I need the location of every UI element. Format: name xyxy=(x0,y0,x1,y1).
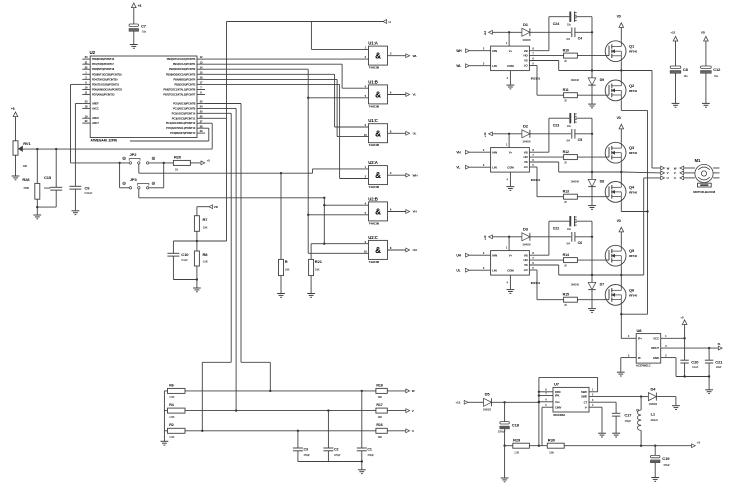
ground xyxy=(598,433,606,437)
wire xyxy=(388,132,406,134)
svg-text:6: 6 xyxy=(532,261,534,265)
svg-text:29: 29 xyxy=(200,129,203,133)
svg-text:U1:B: U1:B xyxy=(368,79,378,84)
svg-text:2: 2 xyxy=(665,353,667,357)
resistor R xyxy=(279,259,290,275)
svg-text:470uF: 470uF xyxy=(663,464,670,467)
wire PC2 to row U xyxy=(202,113,231,431)
svg-text:ATMEGA48_32PIN: ATMEGA48_32PIN xyxy=(91,139,118,143)
svg-text:VS: VS xyxy=(524,263,528,267)
svg-text:V: V xyxy=(667,171,669,175)
svg-text:SWE: SWE xyxy=(581,395,587,399)
svg-text:C19: C19 xyxy=(662,456,670,461)
svg-text:MC34063: MC34063 xyxy=(553,413,565,417)
port U out xyxy=(661,176,669,180)
wire xyxy=(388,249,406,251)
svg-text:VD: VD xyxy=(617,116,622,120)
wire phase W riser xyxy=(621,71,660,169)
wire HO xyxy=(529,156,563,158)
wire xyxy=(504,446,506,478)
svg-text:10K: 10K xyxy=(285,267,290,271)
svg-text:C2: C2 xyxy=(334,447,338,451)
svg-text:8: 8 xyxy=(532,251,534,255)
port VD xyxy=(209,205,219,209)
power +5 (U8) xyxy=(680,316,687,325)
svg-text:8: 8 xyxy=(532,148,534,152)
svg-text:1.2K: 1.2K xyxy=(514,451,519,454)
wire xyxy=(620,232,622,246)
port +12 (bridge D3) xyxy=(483,235,492,240)
svg-text:R: R xyxy=(285,259,288,264)
ground xyxy=(705,390,713,394)
svg-text:&: & xyxy=(375,129,381,138)
svg-text:&: & xyxy=(375,52,381,61)
port +5 out xyxy=(692,440,701,447)
svg-text:V: V xyxy=(412,409,414,413)
wire xyxy=(620,266,622,275)
wire xyxy=(298,461,362,463)
svg-text:ADC6: ADC6 xyxy=(92,116,99,120)
svg-text:VD: VD xyxy=(617,15,622,19)
svg-text:+12: +12 xyxy=(455,401,460,405)
svg-text:LO: LO xyxy=(524,268,529,272)
junction xyxy=(118,162,120,164)
svg-text:2: 2 xyxy=(483,47,485,51)
svg-text:23: 23 xyxy=(200,100,203,104)
wire to low FET gate xyxy=(577,94,609,96)
svg-text:PB4(MISO)/PCINT4: PB4(MISO)/PCINT4 xyxy=(173,77,195,81)
pin 10 PD6 xyxy=(82,86,122,92)
wire xyxy=(387,390,406,392)
svg-text:GND: GND xyxy=(653,356,659,360)
svg-text:1: 1 xyxy=(506,143,508,147)
svg-text:PD1(TXD)/PCINT17: PD1(TXD)/PCINT17 xyxy=(92,62,114,66)
wire xyxy=(149,162,174,164)
svg-text:22uF: 22uF xyxy=(716,366,722,369)
wire xyxy=(469,266,490,270)
svg-text:22u: 22u xyxy=(567,125,571,128)
svg-text:30: 30 xyxy=(85,55,88,59)
wire to U1:B pin5 xyxy=(308,97,368,99)
wire PB4 to U1:C pin10 xyxy=(205,79,369,136)
svg-text:VL: VL xyxy=(456,166,460,170)
wire PD5 to JP2 xyxy=(71,84,130,162)
svg-text:VH: VH xyxy=(413,210,417,214)
pin 11 PD7 xyxy=(82,91,115,97)
svg-text:U: U xyxy=(667,176,669,180)
wire VB loop xyxy=(529,17,569,51)
junction xyxy=(280,172,282,174)
resistor R8 xyxy=(194,241,208,280)
svg-text:+5: +5 xyxy=(11,107,15,111)
svg-text:6: 6 xyxy=(390,208,392,212)
jumper JP2 xyxy=(129,152,140,164)
wire V+ riser xyxy=(506,237,509,251)
pin 9 PD5 xyxy=(82,81,119,87)
svg-text:R28: R28 xyxy=(22,177,30,182)
svg-text:1N4005: 1N4005 xyxy=(522,39,531,42)
wire JP3 pin2 to gate bus xyxy=(139,189,324,198)
svg-text:PD4(T0/XCK)/PCINT20: PD4(T0/XCK)/PCINT20 xyxy=(92,77,118,81)
ground xyxy=(507,290,515,294)
svg-text:6: 6 xyxy=(545,399,547,402)
resistor R15 xyxy=(563,292,578,307)
ground xyxy=(617,372,625,376)
diode D7 1N4148 xyxy=(571,275,604,308)
svg-text:C18: C18 xyxy=(512,422,520,427)
wire xyxy=(120,163,130,188)
svg-text:&: & xyxy=(375,208,381,217)
svg-text:470pF: 470pF xyxy=(367,454,374,457)
wire xyxy=(469,163,490,167)
wire V+ riser xyxy=(506,134,509,148)
svg-text:&: & xyxy=(375,171,381,180)
wire xyxy=(705,73,707,103)
wire JP3 pin3 up to R20 node xyxy=(149,164,164,188)
svg-text:1: 1 xyxy=(506,246,508,250)
svg-text:24: 24 xyxy=(200,105,203,109)
and-gate U2:B 74HC08 xyxy=(365,196,392,225)
svg-text:25: 25 xyxy=(200,109,203,113)
ground xyxy=(358,470,366,474)
svg-text:1K: 1K xyxy=(175,167,178,171)
svg-text:1N4148: 1N4148 xyxy=(571,181,580,184)
pin 22 ADC7 xyxy=(82,119,99,125)
svg-text:LIN: LIN xyxy=(492,165,496,169)
resistor R10 xyxy=(563,48,578,63)
svg-text:10u: 10u xyxy=(142,29,147,33)
svg-text:220uH: 220uH xyxy=(651,419,658,422)
wire xyxy=(15,155,17,175)
svg-text:+12: +12 xyxy=(483,235,487,240)
wire CT to C17 xyxy=(589,399,616,413)
port V out xyxy=(661,171,669,175)
svg-text:IRF540: IRF540 xyxy=(629,293,638,297)
wire RV1 wiper to PC4 (ADC) xyxy=(19,148,213,150)
svg-text:10K: 10K xyxy=(378,395,383,399)
diode D9 1N4148 xyxy=(571,71,604,104)
capacitor C5 xyxy=(566,129,582,142)
svg-text:8: 8 xyxy=(390,129,392,133)
svg-text:PC0(ADC0)/PCINT8: PC0(ADC0)/PCINT8 xyxy=(173,102,196,106)
svg-text:14: 14 xyxy=(200,65,203,69)
svg-text:VS: VS xyxy=(524,160,528,164)
wire xyxy=(387,430,406,432)
svg-text:R14: R14 xyxy=(563,253,569,257)
wire xyxy=(15,117,17,141)
port +12 (bridge D2) xyxy=(483,132,492,137)
ic U8 ACS706 current sensor xyxy=(636,328,661,368)
svg-text:PD5(T1/OC0B)/PCINT21: PD5(T1/OC0B)/PCINT21 xyxy=(92,82,120,86)
svg-text:1N5822: 1N5822 xyxy=(483,408,492,411)
pin 12 PB0 xyxy=(167,55,205,61)
svg-text:R12: R12 xyxy=(563,150,569,154)
wire xyxy=(708,375,710,389)
ground xyxy=(702,103,710,107)
svg-text:IP+: IP+ xyxy=(638,336,642,340)
wire xyxy=(620,129,622,143)
svg-text:8: 8 xyxy=(545,389,547,392)
svg-text:VD: VD xyxy=(214,205,219,209)
svg-text:M1: M1 xyxy=(695,158,701,163)
wire to C10 xyxy=(173,241,197,253)
port W out xyxy=(661,166,670,170)
svg-text:LIN: LIN xyxy=(492,268,496,272)
port WH xyxy=(406,173,418,177)
svg-text:2: 2 xyxy=(483,148,485,152)
svg-text:HIN: HIN xyxy=(492,150,497,154)
svg-text:1N5822: 1N5822 xyxy=(649,403,658,406)
svg-text:L1: L1 xyxy=(651,411,656,416)
wire xyxy=(656,397,676,406)
wire IP- to ground xyxy=(621,353,636,372)
svg-text:HO: HO xyxy=(523,258,528,262)
wire to current sensor xyxy=(620,314,622,338)
diode D8 1N4148 xyxy=(571,172,604,205)
capacitor C1 xyxy=(357,391,375,462)
capacitor C23 xyxy=(553,113,577,128)
svg-text:C1: C1 xyxy=(367,447,371,451)
wire phase node xyxy=(559,274,623,276)
wire to U2:C pin9 xyxy=(324,243,368,245)
svg-text:Vcc: Vcc xyxy=(555,400,560,404)
svg-text:UL: UL xyxy=(413,132,417,136)
wire xyxy=(575,133,593,135)
resistor R17 xyxy=(376,403,387,419)
resistor R30 xyxy=(547,437,564,454)
svg-text:C17: C17 xyxy=(624,413,632,418)
port +12 (bridge D1) xyxy=(483,30,492,35)
svg-text:R18: R18 xyxy=(376,383,382,387)
resistor R4 xyxy=(164,403,185,419)
capacitor C9 xyxy=(69,185,92,210)
svg-text:+12: +12 xyxy=(483,31,487,36)
junction xyxy=(503,445,505,447)
capacitor C10 xyxy=(167,252,189,280)
svg-text:20: 20 xyxy=(85,100,88,104)
pin 24 PC1 xyxy=(173,105,205,111)
svg-text:20: 20 xyxy=(564,100,567,103)
svg-text:C12: C12 xyxy=(713,67,721,72)
port UL xyxy=(406,131,417,135)
port V motor xyxy=(674,171,684,175)
svg-text:C3: C3 xyxy=(304,447,308,451)
wire xyxy=(684,324,686,338)
svg-text:WL: WL xyxy=(413,54,418,58)
jumper JP3 xyxy=(129,177,149,189)
svg-text:VD: VD xyxy=(701,31,706,35)
wire HO xyxy=(529,55,563,57)
resistor R13 xyxy=(563,189,578,204)
junction xyxy=(323,197,325,199)
svg-text:74HC08: 74HC08 xyxy=(369,66,380,70)
svg-text:R20: R20 xyxy=(174,155,182,160)
transistor Q3 IRF540 xyxy=(605,142,637,163)
svg-text:PB2(SS/OC1B)/PCINT2: PB2(SS/OC1B)/PCINT2 xyxy=(169,67,196,71)
svg-text:D1: D1 xyxy=(523,22,529,27)
power VD (C12) xyxy=(701,31,708,41)
pin 29 PC6 xyxy=(170,129,205,135)
svg-text:74HC08: 74HC08 xyxy=(369,221,380,225)
wire xyxy=(705,41,707,66)
svg-text:U1:A: U1:A xyxy=(368,41,378,46)
wire HO xyxy=(529,259,563,261)
capacitor C19 xyxy=(651,446,671,477)
wire xyxy=(675,73,677,103)
svg-text:PB0(ICP1/CLKO)/PCINT0: PB0(ICP1/CLKO)/PCINT0 xyxy=(167,57,196,61)
svg-text:Q1: Q1 xyxy=(629,44,635,49)
resistor R18 xyxy=(376,383,387,399)
svg-text:3: 3 xyxy=(483,163,485,167)
svg-text:5: 5 xyxy=(532,62,534,66)
pin 23 PC0 xyxy=(173,100,205,106)
svg-text:PC4(ADC4/SDA)/PCINT12: PC4(ADC4/SDA)/PCINT12 xyxy=(166,121,196,125)
svg-text:1: 1 xyxy=(85,70,87,74)
svg-text:COM: COM xyxy=(507,64,514,68)
svg-text:6: 6 xyxy=(390,91,392,95)
svg-text:D2: D2 xyxy=(523,123,529,128)
port UL xyxy=(456,268,469,272)
ground xyxy=(672,103,680,107)
svg-text:U7: U7 xyxy=(554,382,560,387)
capacitor C15 xyxy=(44,149,62,207)
svg-text:C10: C10 xyxy=(181,252,189,257)
wire xyxy=(190,162,201,164)
svg-text:1N4148: 1N4148 xyxy=(571,284,580,287)
svg-text:C23: C23 xyxy=(553,124,559,128)
pin 19 ADC6 xyxy=(82,114,99,120)
power +12 (C8) xyxy=(670,31,678,41)
svg-text:10K: 10K xyxy=(315,267,320,271)
wire to low FET gate xyxy=(577,299,609,301)
svg-text:22u: 22u xyxy=(567,228,571,231)
svg-text:22u: 22u xyxy=(567,23,571,26)
diode D2 1N4005 xyxy=(522,123,531,143)
port H xyxy=(383,20,391,24)
junction xyxy=(323,243,325,245)
svg-text:Q5: Q5 xyxy=(629,248,635,253)
wire to low FET gate xyxy=(577,196,609,198)
wire phase V xyxy=(621,171,660,174)
svg-text:IR2101: IR2101 xyxy=(531,281,541,285)
svg-text:PB3(MOSI/OC2A)/PCINT3: PB3(MOSI/OC2A)/PCINT3 xyxy=(166,72,196,76)
wire output rail xyxy=(564,445,691,447)
svg-text:IPK: IPK xyxy=(555,394,559,398)
power +5 (RV1) xyxy=(11,107,18,117)
and-gate U2:A 74HC08 xyxy=(365,160,392,189)
svg-text:VS: VS xyxy=(524,59,528,63)
svg-text:7: 7 xyxy=(532,153,534,157)
wire xyxy=(388,174,406,176)
svg-text:PB1(OC1A)/PCINT1: PB1(OC1A)/PCINT1 xyxy=(173,62,196,66)
wire LO xyxy=(529,66,563,96)
diode D4 1N5822 xyxy=(641,387,658,406)
wire xyxy=(388,211,406,213)
svg-text:PD0(RXD)/PCINT16: PD0(RXD)/PCINT16 xyxy=(92,57,115,61)
svg-text:VIOUT: VIOUT xyxy=(651,346,659,350)
wire xyxy=(388,55,406,57)
svg-text:3: 3 xyxy=(665,344,667,348)
capacitor C3 xyxy=(293,431,311,462)
ground xyxy=(588,206,596,210)
svg-text:470pF: 470pF xyxy=(625,420,632,423)
wire left bus xyxy=(163,391,165,441)
svg-text:WL: WL xyxy=(456,64,461,68)
wire xyxy=(468,401,484,403)
pin 1 PD3 xyxy=(82,70,122,76)
wire phase node xyxy=(559,69,623,71)
ic driver IR2101 xyxy=(491,46,541,80)
inductor L1 220uH xyxy=(637,397,658,446)
capacitor C7 xyxy=(129,23,147,33)
pin 7 PB6 xyxy=(163,86,205,92)
svg-text:20: 20 xyxy=(564,304,567,307)
svg-text:+5: +5 xyxy=(697,440,701,444)
svg-text:1.5K: 1.5K xyxy=(169,415,174,419)
svg-text:W: W xyxy=(667,166,670,170)
wire H line xyxy=(227,21,383,23)
svg-text:0.1uF: 0.1uF xyxy=(181,258,188,262)
port WL xyxy=(406,54,418,58)
svg-text:10K: 10K xyxy=(378,415,383,419)
svg-text:3: 3 xyxy=(592,399,594,402)
svg-text:28: 28 xyxy=(200,124,203,128)
wire COM pin xyxy=(507,172,511,186)
wire xyxy=(530,236,571,238)
svg-text:PC6(RESET)/PCINT14: PC6(RESET)/PCINT14 xyxy=(170,131,196,135)
svg-text:IS: IS xyxy=(718,342,721,346)
svg-text:10u: 10u xyxy=(684,75,689,78)
wire xyxy=(280,276,282,294)
wire PB3 to U1:C pin9 xyxy=(205,74,369,127)
svg-text:U1:C: U1:C xyxy=(368,118,378,123)
port UH xyxy=(456,253,469,257)
port WL xyxy=(456,64,469,68)
svg-text:3: 3 xyxy=(483,266,485,270)
svg-text:7: 7 xyxy=(532,256,534,260)
capacitor C21 xyxy=(705,348,723,376)
motor M1 BLDC xyxy=(684,158,720,194)
svg-text:27: 27 xyxy=(200,119,203,123)
port +12 (U7) xyxy=(455,400,468,404)
wire VCC xyxy=(661,334,686,339)
wire PC4 to RV1 wiper xyxy=(205,123,212,149)
svg-text:4: 4 xyxy=(628,334,630,338)
wire xyxy=(196,280,198,288)
svg-text:D3: D3 xyxy=(523,226,529,231)
svg-text:R6: R6 xyxy=(169,383,173,387)
svg-text:HO: HO xyxy=(523,54,528,58)
svg-text:D7: D7 xyxy=(600,283,604,287)
svg-text:V+: V+ xyxy=(509,150,513,154)
svg-text:R2: R2 xyxy=(169,423,173,427)
svg-text:U2:B: U2:B xyxy=(368,196,378,201)
svg-text:31: 31 xyxy=(85,60,88,64)
ground xyxy=(507,187,515,191)
port VL xyxy=(456,165,469,169)
wire to U2:B pin5 xyxy=(308,214,368,216)
svg-text:7: 7 xyxy=(532,52,534,56)
potentiometer RV1 xyxy=(13,141,31,168)
svg-text:HIN: HIN xyxy=(492,49,497,53)
ground xyxy=(588,309,596,313)
svg-text:104: 104 xyxy=(566,242,570,245)
svg-text:PD2(INT0)/PCINT18: PD2(INT0)/PCINT18 xyxy=(92,67,115,71)
resistor R21 xyxy=(309,259,323,275)
wire xyxy=(361,460,363,469)
wire to high FET gate xyxy=(577,156,609,158)
port W xyxy=(406,389,415,393)
